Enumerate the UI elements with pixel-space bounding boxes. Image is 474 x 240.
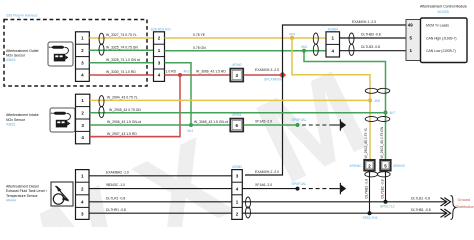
wire W_2905_43 green (90, 112, 386, 114)
wire EXAMXH-1 black to ACM (245, 25, 406, 175)
svg-text:W_3327_74 0.75 YL: W_3327_74 0.75 YL (106, 33, 137, 37)
wire DL7LB1 (242, 201, 447, 203)
svg-text:DL7LB1 -0.8: DL7LB1 -0.8 (411, 196, 430, 200)
red drop wire to intake (90, 75, 180, 137)
watermark (0, 45, 386, 240)
wire XF1A5 green (244, 124, 297, 126)
dashed continuation wire (302, 124, 332, 126)
svg-text:4S9B4: 4S9B4 (328, 27, 338, 31)
svg-text:W_2907_43 1.5 RD: W_2907_43 1.5 RD (107, 132, 137, 136)
svg-text:4F041: 4F041 (232, 113, 242, 117)
svg-text:628 Plug-In Harness: 628 Plug-In Harness (7, 14, 38, 18)
Aftertreatment Intake NOx Sensor label (6, 113, 39, 126)
svg-text:SPDL7H1: SPDL7H1 (363, 216, 378, 220)
wire W_3325_74 green (89, 49, 153, 51)
twisted pair below 2/5 (365, 172, 390, 177)
svg-text:DL7HB1 -0.8: DL7HB1 -0.8 (411, 208, 431, 212)
inline connector 5 (380, 160, 405, 171)
twisted pair vertical CAN lower (365, 117, 390, 122)
inline connector 2 (350, 160, 375, 171)
node 4K4 (189, 123, 193, 127)
svg-text:DL7HR1 -0.8: DL7HR1 -0.8 (106, 208, 126, 212)
svg-text:DL7LR1 -0.8: DL7LR1 -0.8 (106, 196, 125, 200)
svg-text:W_3066_43 1.5 RD: W_3066_43 1.5 RD (196, 70, 226, 74)
harness dashed box 628 Plug-In Harness (4, 20, 147, 87)
svg-text:Temperature Sensor: Temperature Sensor (6, 194, 39, 198)
svg-text:628 NOx IFD: 628 NOx IFD (151, 28, 171, 32)
off-page arrow (332, 119, 347, 130)
inline connector 4S9B2 (pins 3,4,1,2) (232, 165, 243, 219)
svg-text:W_2906_43 1.5 GN-rd: W_2906_43 1.5 GN-rd (107, 120, 141, 124)
wire W_2904_43 yellow (90, 99, 370, 101)
wire 0.75 GN CAN low green (165, 50, 327, 52)
svg-text:4F040: 4F040 (232, 63, 242, 67)
svg-text:XF1A5 -2.0: XF1A5 -2.0 (255, 120, 272, 124)
svg-text:0.75 YE: 0.75 YE (193, 33, 206, 37)
node 4K3 red junction (178, 73, 182, 77)
svg-text:SPXF1AL: SPXF1AL (292, 182, 307, 186)
svg-text:W_3328_74 1.0 GN rd: W_3328_74 1.0 GN rd (106, 58, 140, 62)
svg-text:DL7HB3 -0.8: DL7HB3 -0.8 (361, 32, 381, 36)
wire W_2906_43 green (90, 124, 230, 126)
svg-text:EXAMXH-3 -2.0: EXAMXH-3 -2.0 (255, 68, 279, 72)
svg-text:SPLXAMXH: SPLXAMXH (264, 78, 283, 82)
svg-text:EXAMXH-2 -2.0: EXAMXH-2 -2.0 (255, 170, 279, 174)
svg-text:W_2903_43 0.75 GN: W_2903_43 0.75 GN (380, 126, 384, 158)
svg-text:W_3065_43 1.5 GN-rd: W_3065_43 1.5 GN-rd (194, 120, 228, 124)
svg-text:4K7: 4K7 (390, 111, 396, 115)
svg-text:W_2905_43 0.75 GN: W_2905_43 0.75 GN (109, 108, 141, 112)
svg-text:DL7LB2 -0.8: DL7LB2 -0.8 (381, 179, 385, 198)
svg-text:4A105S: 4A105S (437, 10, 450, 14)
wire EXAMBA2 (89, 175, 232, 177)
intake NOx sensor icon (50, 108, 75, 132)
svg-text:4S904C: 4S904C (350, 164, 363, 168)
brace (451, 196, 456, 220)
ground distribution arrows (441, 198, 451, 218)
outlet sensor connector (pins 1-4) (76, 32, 90, 82)
svg-text:4K4: 4K4 (187, 129, 193, 133)
dashed continuation wire (302, 188, 332, 190)
svg-text:MCM Tx Leads: MCM Tx Leads (426, 23, 449, 27)
inline connector 3 (4F040) (230, 63, 243, 81)
DEF tank sensor icon (51, 182, 73, 206)
off-page arrow (332, 183, 347, 194)
connector 4S9B4 (pins 1,4) (326, 27, 340, 57)
svg-text:SPDL7L2: SPDL7L2 (380, 205, 395, 209)
wire DL7LB3 (340, 50, 407, 52)
svg-text:CAN High (J1939-7): CAN High (J1939-7) (426, 36, 457, 40)
wire W_3328_74 green (89, 62, 153, 64)
wire W_3327_74 yellow (89, 37, 153, 39)
node SPXF1A6 (296, 187, 300, 191)
Aftertreatment DEF Tank sensor label (6, 185, 47, 203)
yellow CAN drop wire (292, 38, 370, 161)
twisted pair intake (99, 96, 104, 118)
node 4K5 yellow junction (290, 36, 294, 40)
wire DL7HR1 (89, 212, 232, 214)
wire DL7LB2 vertical (385, 171, 387, 202)
node SPXF1A5 (296, 123, 300, 127)
svg-text:4S9B2: 4S9B2 (232, 165, 242, 169)
wire DL7HB1 (242, 212, 447, 214)
wire 1.0 RD red (165, 74, 231, 76)
Aftertreatment Outlet NOx Sensor label (6, 49, 39, 62)
wire XF1A6 (242, 188, 296, 190)
twisted pair before 4S9B4 (313, 33, 318, 55)
svg-text:Distribution: Distribution (456, 205, 474, 209)
svg-text:Aftertreatment Outlet: Aftertreatment Outlet (6, 49, 39, 53)
svg-text:EXAMBA2 -1.0: EXAMBA2 -1.0 (106, 170, 129, 174)
node SPDL7H1 (368, 211, 372, 215)
twisted pair vertical CAN upper (365, 88, 390, 93)
svg-text:NOx Sensor: NOx Sensor (6, 54, 26, 58)
wire DL7HB3 (340, 37, 407, 39)
svg-text:4K8: 4K8 (374, 99, 380, 103)
svg-text:49: 49 (408, 22, 414, 27)
svg-text:W_2902_43 0.75 YL: W_2902_43 0.75 YL (364, 128, 368, 159)
node SPDL7L2 (384, 200, 388, 204)
svg-text:Aftertreatment Control Module: Aftertreatment Control Module (420, 4, 467, 8)
svg-text:1.0 RD: 1.0 RD (166, 70, 177, 74)
svg-text:EXAMXH-1 -2.0: EXAMXH-1 -2.0 (352, 20, 376, 24)
svg-text:DL7LB3 -0.8: DL7LB3 -0.8 (361, 45, 380, 49)
inline connector 6 (4F041) (230, 113, 243, 131)
svg-text:4K5: 4K5 (289, 32, 295, 36)
DEF sensor connector (pins 1,2,4,3) (76, 170, 90, 220)
wire DL7LR1 (89, 201, 232, 203)
twisted pair DEF (246, 197, 251, 218)
wire W_3330_74 red (89, 74, 153, 76)
svg-text:SPXF1AL: SPXF1AL (292, 118, 307, 122)
wire 0.75 YE CAN high yellow (165, 37, 327, 39)
svg-text:W_2904_43 0.75 YL: W_2904_43 0.75 YL (107, 96, 138, 100)
node 4K7 green junction intake (384, 111, 388, 115)
twisted pair outlet (99, 33, 104, 55)
outlet NOx sensor icon instance (48, 42, 73, 66)
svg-text:4K6: 4K6 (301, 45, 307, 49)
svg-text:NOx Sensor: NOx Sensor (6, 118, 26, 122)
node 4K6 green junction (302, 49, 306, 53)
svg-text:W_3330_74 1.0 RD: W_3330_74 1.0 RD (106, 70, 136, 74)
svg-text:4K3: 4K3 (184, 70, 190, 74)
svg-text:Aftertreatment Intake: Aftertreatment Intake (6, 113, 39, 117)
svg-text:4S9043: 4S9043 (393, 164, 405, 168)
twisted pair after 4S9B4 (349, 33, 354, 55)
svg-text:Ground: Ground (458, 198, 471, 202)
svg-text:43643: 43643 (6, 58, 16, 62)
harness side connector 62B (pins 2,1,3,4) (151, 28, 171, 82)
wire 9B343C (89, 188, 232, 190)
wire GN-rd drop from outlet (165, 63, 192, 125)
svg-text:Exhaust Fluid Tank Level /: Exhaust Fluid Tank Level / (6, 189, 47, 193)
wire W_2907_43 red (90, 136, 180, 138)
svg-text:CAN Low (J1939-7): CAN Low (J1939-7) (426, 49, 456, 53)
svg-text:43631: 43631 (6, 123, 16, 127)
svg-text:DL7HB2 -0.8: DL7HB2 -0.8 (365, 179, 369, 199)
node EXAMXH splice diamond (279, 71, 286, 78)
intake sensor connector (pins 1-4) (76, 94, 90, 144)
svg-text:4K444: 4K444 (6, 199, 16, 203)
ACM Aftertreatment Control Module (406, 4, 467, 62)
node 4K8 yellow junction intake (368, 98, 372, 102)
wire EXAMXH-3 red (244, 74, 283, 76)
svg-text:Aftertreatment Diesel: Aftertreatment Diesel (6, 185, 39, 189)
green CAN drop wire (304, 51, 386, 161)
svg-text:9B343C -1.0: 9B343C -1.0 (106, 183, 125, 187)
svg-text:0.75 GN: 0.75 GN (193, 46, 206, 50)
svg-text:W_3325_74 0.75 GN: W_3325_74 0.75 GN (106, 46, 138, 50)
svg-text:XF1A6 -2.0: XF1A6 -2.0 (255, 183, 272, 187)
wire DL7HB2 vertical (369, 171, 371, 214)
